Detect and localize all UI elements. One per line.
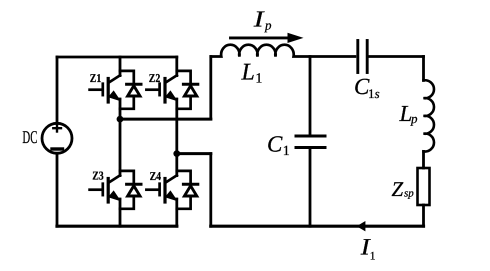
wire: Z3 collector to node A [119,119,122,176]
current arrow Ip [231,33,304,43]
transistor Z1 (IGBT with antiparallel diode) [90,71,141,109]
svg-text:p: p [264,17,272,32]
transistor Z3 (IGBT with antiparallel diode) [90,171,141,209]
wire: L1 feed riser [209,57,212,120]
impedance Zsp [418,168,430,205]
label Zsp [392,177,415,201]
svg-text:s: s [375,86,380,101]
wire: C1 branch upper [309,57,312,135]
wire: Z2 emitter to node B [175,99,178,154]
transistor Z2 (IGBT with antiparallel diode) [146,71,197,109]
capacitor C1s [358,41,367,73]
wire: left branch upper segment [56,57,59,123]
wire: right branch upper [422,57,425,81]
wire: tank bottom rail [211,225,424,228]
wire: Zsp to bottom rail [422,205,425,226]
DC source V1 [42,123,72,153]
wire: node A to L1 feed [120,118,211,121]
svg-text:Z2: Z2 [149,71,161,85]
svg-text:Z3: Z3 [92,169,104,183]
wire: C1 branch lower [309,149,312,226]
inductor L1 [211,45,355,57]
node B junction dot [173,150,180,157]
svg-text:1: 1 [255,72,262,87]
wire: Z4 emitter to bottom rail [175,199,178,226]
label I1 [360,234,376,262]
inductor Lp [424,80,434,151]
svg-text:1: 1 [368,86,375,101]
wire: top DC rail [57,56,177,59]
svg-text:C: C [267,131,283,156]
svg-text:DC: DC [22,127,37,147]
svg-text:L: L [241,59,255,85]
wire: Z2 collector to top rail [175,57,178,76]
svg-text:sp: sp [404,187,414,199]
svg-text:1: 1 [370,251,376,263]
label C1 [267,131,290,159]
svg-text:p: p [410,111,418,126]
wire: Z4 collector to node B [175,154,178,176]
wire: node B to return drop [177,152,211,155]
svg-text:Z4: Z4 [150,169,162,183]
wire: Z1 collector to top rail [119,57,122,76]
wire: return drop [209,154,212,227]
wire: C1s to right branch [369,55,424,58]
svg-text:I: I [253,6,266,31]
label Ip [253,6,272,32]
wire: bottom DC rail [57,225,177,228]
label C1s [354,74,380,101]
label Lp [399,101,419,126]
wire: Z3 emitter to bottom rail [119,199,122,226]
svg-text:Z: Z [392,177,404,201]
label L1 [241,59,263,86]
wire: Lp to Zsp [422,151,425,168]
node A junction dot [117,116,124,123]
wire: Z1 emitter to node A [119,99,122,119]
svg-text:Z1: Z1 [90,71,102,85]
transistor Z4 (IGBT with antiparallel diode) [146,171,197,209]
wire: left branch lower segment [56,153,59,226]
svg-text:1: 1 [283,144,290,159]
capacitor C1 [296,136,325,148]
current arrow I1 [357,221,366,231]
